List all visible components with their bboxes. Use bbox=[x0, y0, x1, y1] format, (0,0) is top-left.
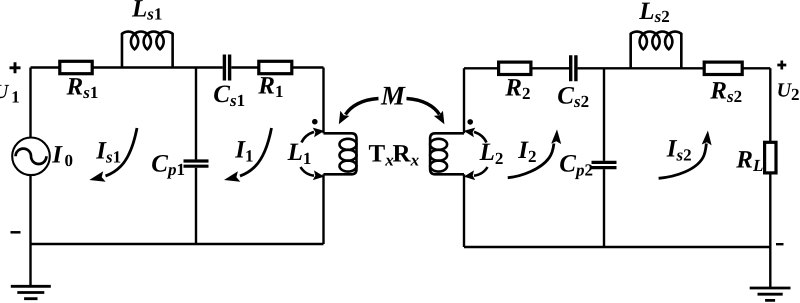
svg-text:Ls1: Ls1 bbox=[131, 0, 162, 24]
svg-text:M: M bbox=[380, 81, 406, 111]
